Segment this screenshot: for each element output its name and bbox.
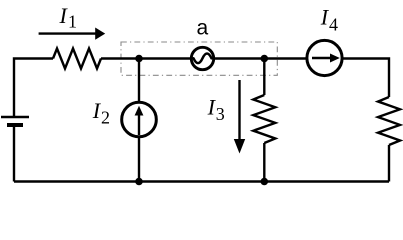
- resistor R3 (right): [378, 97, 400, 145]
- AC source (node a): [191, 47, 213, 69]
- svg-text:a: a: [197, 17, 209, 40]
- wire right resistor to bottom: [388, 145, 390, 182]
- svg-text:4: 4: [329, 15, 338, 35]
- current source I2 circle: [122, 102, 157, 137]
- svg-text:3: 3: [216, 104, 225, 124]
- resistor R1 (top): [53, 49, 101, 69]
- I4 arrow: [312, 57, 331, 59]
- current source I4 circle: [307, 40, 342, 75]
- I3 current arrow: [238, 80, 240, 140]
- node dot bottom I2: [135, 178, 143, 186]
- bottom wire: [14, 180, 389, 182]
- wire resistor to AC source: [101, 57, 191, 59]
- dashed box around node a: [121, 42, 277, 75]
- wire battery to bottom: [13, 125, 15, 182]
- svg-text:2: 2: [101, 108, 110, 128]
- I2 arrow: [138, 115, 140, 135]
- battery V1 short plate: [7, 123, 23, 127]
- node dot top-right of box: [261, 55, 269, 63]
- node dot bottom R2: [261, 178, 269, 186]
- resistor R2 (middle): [253, 95, 275, 143]
- wire R2 to bottom: [263, 143, 265, 182]
- wire I2 to bottom: [138, 137, 140, 182]
- node dot top-left of box: [135, 55, 143, 63]
- battery V1 long plate: [1, 116, 29, 118]
- svg-text:1: 1: [68, 12, 77, 32]
- sine symbol: [194, 54, 212, 64]
- wire top-left: [14, 59, 53, 118]
- wire AC source to I4 source: [214, 57, 307, 59]
- wire node a to I2 source: [138, 59, 140, 103]
- wire node a to R2: [263, 59, 265, 96]
- I1 current arrow: [39, 32, 96, 34]
- wire I4 to right corner: [342, 59, 389, 98]
